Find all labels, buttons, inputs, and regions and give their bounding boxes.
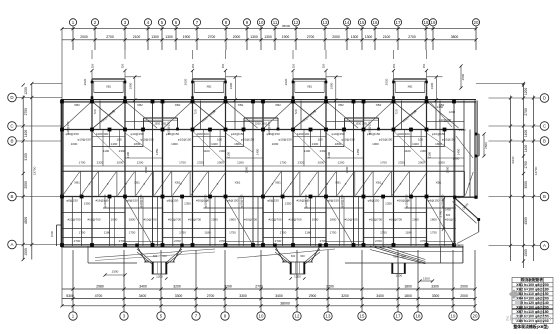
svg-text:350: 350 [292, 63, 296, 68]
svg-text:17: 17 [396, 314, 401, 319]
cell wire [317, 171, 319, 196]
svg-text:φ10@180: φ10@180 [439, 118, 452, 122]
svg-text:1800: 1800 [144, 166, 148, 173]
svg-text:B: B [543, 194, 546, 199]
svg-text:1000: 1000 [71, 142, 78, 146]
svg-text:120: 120 [145, 260, 150, 263]
axis bubble 6 top [172, 19, 179, 26]
svg-text:2000: 2000 [460, 284, 468, 288]
svg-text:1750: 1750 [430, 231, 437, 235]
svg-text:2300: 2300 [219, 149, 226, 153]
svg-text:1500 1201: 1500 1201 [255, 122, 268, 126]
svg-text:350: 350 [91, 63, 95, 68]
svg-text:1000: 1000 [171, 142, 178, 146]
svg-text:A: A [543, 243, 546, 248]
bottom left edge leader [61, 246, 63, 306]
svg-text:1790: 1790 [524, 161, 528, 169]
svg-text:1000: 1000 [50, 230, 54, 237]
svg-text:1200: 1200 [137, 161, 144, 165]
svg-text:C: C [10, 124, 13, 129]
svg-text:13700: 13700 [534, 166, 538, 175]
svg-text:2000: 2000 [233, 35, 241, 39]
svg-text:XB1: XB1 [275, 181, 281, 185]
svg-text:φ8@150: φ8@150 [227, 199, 239, 203]
svg-text:1700: 1700 [79, 161, 86, 165]
axis stub wire bottom [474, 250, 476, 312]
svg-text:350: 350 [422, 63, 426, 68]
svg-text:1350: 1350 [285, 202, 292, 206]
svg-text:13: 13 [326, 314, 331, 319]
svg-text:1200: 1200 [237, 161, 244, 165]
axis bubble 7 top [193, 19, 200, 26]
svg-text:1200: 1200 [294, 275, 301, 279]
svg-text:XB7 h=110 φ8@180: XB7 h=110 φ8@180 [516, 310, 548, 314]
left protrusion [57, 224, 63, 226]
svg-text:φ8@150: φ8@150 [167, 199, 179, 203]
axis bubble 3 top [121, 19, 128, 26]
svg-text:1450: 1450 [437, 105, 444, 109]
axis bubble 17 top [394, 19, 401, 26]
watermark logo square [515, 299, 521, 306]
axis stub wire top [124, 26, 126, 50]
svg-text:XB2 h=100 φ8@180: XB2 h=100 φ8@180 [516, 288, 549, 292]
svg-text:#10@700: #10@700 [168, 218, 181, 222]
svg-text:1100: 1100 [227, 151, 231, 158]
svg-text:φ10@700: φ10@700 [405, 194, 409, 207]
svg-text:1000: 1000 [412, 218, 419, 222]
svg-text:17: 17 [396, 20, 401, 25]
beam wires horizontal [226, 121, 264, 123]
svg-text:1750: 1750 [129, 231, 136, 235]
svg-text:B: B [11, 194, 14, 199]
axis leader wire right [489, 196, 541, 198]
top dimension line upper [62, 28, 476, 30]
svg-text:1450: 1450 [256, 148, 260, 155]
axis stub wire top [94, 26, 96, 50]
stair bay walls [193, 78, 226, 80]
svg-text:1300: 1300 [264, 35, 272, 39]
svg-text:φ10@150: φ10@150 [66, 121, 70, 134]
cell diagonal [118, 172, 135, 195]
corner cleanup mask [456, 198, 478, 244]
axis bubble 14 top [343, 19, 350, 26]
cell diagonal [392, 172, 409, 195]
svg-text:16: 16 [373, 20, 378, 25]
svg-text:XB1: XB1 [74, 181, 80, 185]
svg-text:1300: 1300 [165, 35, 173, 39]
svg-text:φ10@700: φ10@700 [441, 194, 445, 207]
svg-text:1450: 1450 [457, 148, 461, 155]
slab diagonals [63, 102, 91, 128]
axis bubble 20 top [472, 19, 479, 26]
svg-text:2000: 2000 [117, 161, 124, 165]
svg-text:19: 19 [431, 20, 436, 25]
dim 1300 right fan [420, 280, 433, 282]
beam wires horizontal [125, 121, 163, 123]
svg-text:3400: 3400 [139, 284, 147, 288]
svg-text:#10@700: #10@700 [188, 218, 201, 222]
chamfer return [457, 232, 479, 244]
cell diagonal [136, 172, 153, 195]
svg-text:1000: 1000 [111, 218, 118, 222]
axis bubble B left [8, 137, 17, 146]
axis bubble 15 top [358, 19, 365, 26]
svg-text:1800: 1800 [404, 284, 412, 288]
leader diagonal [394, 131, 427, 163]
svg-text:2000: 2000 [418, 161, 425, 165]
bay window fan [273, 244, 321, 280]
svg-text:3150: 3150 [24, 153, 28, 161]
right lower apron line [345, 262, 463, 264]
axis bubble 4 top [144, 19, 151, 26]
svg-text:1800: 1800 [446, 166, 450, 173]
axis bubble 12 bottom [293, 312, 301, 320]
svg-text:1400 100: 1400 100 [196, 132, 209, 136]
svg-text:φ10@150: φ10@150 [442, 138, 456, 142]
cell diagonal [154, 172, 171, 195]
unit module 2 [161, 50, 263, 247]
bottom overall line [62, 305, 475, 307]
svg-text:1900: 1900 [330, 82, 334, 89]
svg-text:600: 600 [446, 213, 451, 217]
svg-text:3300: 3300 [175, 294, 183, 298]
axis bubble 18 top [422, 19, 429, 26]
svg-text:3200: 3200 [173, 284, 181, 288]
svg-text:350: 350 [392, 63, 396, 68]
svg-text:2320: 2320 [197, 161, 204, 165]
axis bubble 5 top [158, 19, 165, 26]
svg-text:2900: 2900 [309, 294, 317, 298]
svg-text:3200: 3200 [224, 284, 232, 288]
fan entry box [290, 262, 292, 274]
svg-text:1500 1201: 1500 1201 [154, 122, 167, 126]
cell wire [79, 171, 81, 196]
axis stub wire bottom [260, 250, 262, 312]
cell diagonal [173, 172, 190, 195]
corner inner wall [454, 197, 456, 245]
svg-text:B: B [11, 139, 14, 144]
corner beam y197 [455, 196, 476, 198]
left apron line [88, 262, 137, 264]
svg-text:φ8@150: φ8@150 [66, 199, 78, 203]
svg-text:1100: 1100 [428, 151, 432, 158]
axis leader wire right [489, 97, 541, 99]
axis bubble 3 bottom [120, 312, 128, 320]
fan leader diagonal 1 [95, 249, 215, 258]
svg-text:1400: 1400 [524, 130, 528, 138]
cell wire [372, 171, 374, 196]
svg-text:3200: 3200 [341, 294, 349, 298]
right end interior wires [463, 101, 465, 198]
svg-text:1350: 1350 [184, 202, 191, 206]
cell diagonal [337, 172, 354, 195]
axis stub wire bottom [195, 250, 197, 312]
svg-text:现浇板配筋表: 现浇板配筋表 [521, 277, 543, 282]
svg-text:φ10@150: φ10@150 [231, 132, 245, 136]
svg-text:A: A [11, 242, 14, 247]
leader diagonal [193, 131, 226, 163]
axis bubble D right [540, 94, 549, 103]
svg-text:#10@700: #10@700 [344, 218, 357, 222]
svg-text:#10@700: #10@700 [67, 218, 80, 222]
svg-text:2300: 2300 [420, 149, 427, 153]
beam wires horizontal [427, 121, 465, 123]
leader diagonal [293, 131, 326, 163]
watermark logo diamond [509, 289, 519, 299]
right bay dim 2500 [483, 134, 485, 156]
left dimension chain outer line [31, 84, 33, 260]
svg-text:φ10@150: φ10@150 [368, 121, 372, 134]
svg-text:2000: 2000 [80, 35, 88, 39]
left small dim 1500 [105, 274, 125, 276]
svg-text:2320: 2320 [298, 161, 305, 165]
cell wire [189, 171, 191, 196]
axis stub wire top [225, 26, 227, 50]
dim 2780 chain [443, 199, 445, 229]
svg-text:XB1: XB1 [335, 181, 341, 185]
building top wall [61, 99, 476, 101]
svg-text:20: 20 [474, 20, 479, 25]
cell wire [390, 171, 392, 196]
svg-text:1100: 1100 [103, 149, 110, 153]
axis bubble 11 top [271, 19, 278, 26]
svg-text:18: 18 [416, 314, 421, 319]
cell diagonal [301, 172, 318, 195]
axis stub wire top [425, 26, 427, 50]
svg-text:1800: 1800 [229, 218, 236, 222]
axis bubble D left [8, 93, 17, 102]
svg-text:1200: 1200 [449, 110, 456, 114]
axis bubble 18 bottom [414, 312, 422, 320]
svg-text:#10@700: #10@700 [244, 218, 257, 222]
axis bubble B right [540, 192, 549, 201]
svg-text:B: B [543, 139, 546, 144]
cell diagonal [264, 172, 281, 195]
axis bubble 13 top [321, 19, 328, 26]
svg-text:1180: 1180 [405, 231, 412, 235]
cell diagonal [81, 172, 98, 195]
stair cross brace [293, 102, 326, 129]
svg-text:φ10@150: φ10@150 [140, 138, 154, 142]
svg-text:2700: 2700 [320, 239, 327, 243]
svg-text:1500: 1500 [524, 249, 528, 257]
cell diagonal [465, 172, 473, 195]
svg-text:1400: 1400 [312, 142, 319, 146]
svg-text:φ10@150: φ10@150 [178, 138, 192, 142]
svg-text:18: 18 [424, 20, 429, 25]
bay window fan [135, 244, 183, 280]
svg-text:1800: 1800 [330, 218, 337, 222]
svg-text:2500: 2500 [484, 142, 488, 149]
svg-text:φ10@700: φ10@700 [103, 194, 107, 207]
svg-text:2320: 2320 [398, 161, 405, 165]
svg-text:2300: 2300 [320, 149, 327, 153]
axis bubble 20 bottom [471, 312, 479, 320]
svg-text:20: 20 [473, 314, 478, 319]
svg-text:1900: 1900 [229, 82, 233, 89]
svg-text:1200: 1200 [395, 273, 402, 277]
axis stub wire top [147, 26, 149, 50]
leader diagonal [92, 131, 125, 163]
axis stub wire bottom [123, 250, 125, 312]
axis stub wire top [72, 26, 74, 50]
svg-text:1300: 1300 [151, 35, 159, 39]
svg-text:2000: 2000 [318, 161, 325, 165]
svg-text:XB1: XB1 [436, 181, 442, 185]
stair bay walls [394, 78, 427, 80]
svg-text:D: D [543, 96, 546, 101]
svg-text:1300: 1300 [365, 35, 373, 39]
axis stub wire top [274, 26, 276, 50]
slab diagonals [365, 102, 393, 128]
svg-text:1400: 1400 [412, 142, 419, 146]
svg-text:XB2: XB2 [338, 103, 344, 107]
svg-text:2000: 2000 [460, 294, 468, 298]
beam wires vertical [162, 101, 164, 247]
svg-text:1000: 1000 [272, 142, 279, 146]
svg-text:1200: 1200 [338, 161, 345, 165]
bottom dimension line row1 [62, 288, 475, 290]
svg-text:XB2: XB2 [275, 103, 281, 107]
axis bubble B left [8, 192, 17, 201]
svg-text:12: 12 [294, 20, 299, 25]
axis leader wire left [16, 244, 62, 246]
unit module 1 [60, 50, 162, 247]
left dimension chain inner line [22, 96, 24, 260]
right side step [475, 133, 479, 135]
svg-text:φ10@150: φ10@150 [267, 121, 271, 134]
svg-text:600: 600 [291, 254, 296, 258]
cell diagonal [63, 172, 80, 195]
svg-text:1100: 1100 [327, 151, 331, 158]
axis bubble 17 bottom [394, 312, 402, 320]
axis stub wire bottom [361, 250, 363, 312]
svg-text:1100: 1100 [304, 149, 311, 153]
svg-text:2700: 2700 [24, 108, 28, 116]
building bottom wall [61, 244, 464, 246]
svg-text:2700: 2700 [420, 239, 427, 243]
beam wires horizontal [326, 121, 364, 123]
cell wire [61, 171, 63, 196]
svg-text:720: 720 [294, 109, 298, 114]
stair bay walls [293, 78, 326, 80]
rebar legend table [512, 277, 553, 329]
svg-text:φ10@150: φ10@150 [379, 138, 393, 142]
svg-text:1900: 1900 [129, 82, 133, 89]
svg-text:2020: 2020 [83, 78, 87, 85]
svg-text:XB1: XB1 [307, 85, 313, 89]
svg-text:1000: 1000 [312, 218, 319, 222]
svg-text:1300: 1300 [250, 35, 258, 39]
svg-text:1200: 1200 [524, 88, 528, 96]
axis bubble 19 top [429, 19, 436, 26]
axis bubble C left [8, 122, 17, 131]
axis leader wire left [16, 140, 62, 142]
svg-text:1800: 1800 [245, 166, 249, 173]
svg-text:1350: 1350 [84, 202, 91, 206]
svg-text:1500 1201: 1500 1201 [355, 122, 368, 126]
svg-text:4500: 4500 [524, 217, 528, 225]
svg-text:XB3 h=110 φ8@150: XB3 h=110 φ8@150 [516, 292, 548, 296]
axis stub wire top [161, 26, 163, 50]
svg-text:1200: 1200 [24, 87, 28, 95]
svg-text:1800: 1800 [404, 294, 412, 298]
axis bubble 12 top [292, 19, 299, 26]
svg-text:2700: 2700 [524, 108, 528, 116]
cell diagonal [282, 172, 299, 195]
svg-text:2780: 2780 [439, 210, 443, 217]
svg-text:2700: 2700 [307, 35, 315, 39]
axis bubble 8 bottom [221, 312, 229, 320]
svg-text:10: 10 [259, 20, 264, 25]
unit module 3 [261, 50, 363, 247]
axis stub wire top [260, 26, 262, 50]
svg-text:1800: 1800 [345, 166, 349, 173]
right fan entry box [391, 263, 393, 274]
svg-text:1180: 1180 [305, 231, 312, 235]
svg-text:2700: 2700 [326, 284, 334, 288]
svg-text:2500: 2500 [461, 73, 465, 80]
svg-text:D: D [10, 95, 13, 100]
cell diagonal [319, 172, 336, 195]
svg-text:1400 100: 1400 100 [96, 132, 109, 136]
unit module 4 [362, 50, 464, 247]
svg-text:1800: 1800 [435, 142, 442, 146]
svg-text:φ10@700: φ10@700 [204, 194, 208, 207]
right dimension chain lines [510, 96, 512, 262]
left edge leader top [61, 29, 63, 101]
cell wire [262, 171, 264, 196]
axis bubble 7 bottom [192, 312, 200, 320]
svg-text:1750: 1750 [280, 231, 287, 235]
svg-text:1400 100: 1400 100 [397, 132, 410, 136]
chamfer oblique wall [455, 198, 479, 220]
svg-text:1800: 1800 [134, 142, 141, 146]
right end room diagonal [456, 136, 473, 158]
slab diagonals [264, 102, 292, 128]
svg-text:2000: 2000 [24, 181, 28, 189]
svg-text:1800: 1800 [335, 142, 342, 146]
axis bubble 2 top [91, 19, 98, 26]
svg-text:1400 100: 1400 100 [297, 132, 310, 136]
svg-text:1800: 1800 [234, 142, 241, 146]
svg-text:2020: 2020 [284, 78, 288, 85]
svg-text:2020: 2020 [184, 78, 188, 85]
beam wires vertical [262, 101, 264, 247]
svg-text:2000: 2000 [217, 161, 224, 165]
axis bubble 10 top [257, 19, 264, 26]
svg-text:1750: 1750 [380, 231, 387, 235]
svg-text:720: 720 [93, 109, 97, 114]
cell wire [98, 171, 100, 196]
beam wires vertical [61, 101, 63, 247]
axis stub wire bottom [452, 250, 454, 312]
svg-text:φ8@150: φ8@150 [368, 199, 380, 203]
svg-text:14: 14 [345, 20, 350, 25]
stair cross brace [193, 102, 226, 129]
axis bubble 19 bottom [449, 312, 457, 320]
svg-text:2700: 2700 [275, 239, 282, 243]
axis stub wire bottom [296, 250, 298, 312]
axis stub wire bottom [224, 250, 226, 312]
svg-text:38000: 38000 [280, 301, 290, 305]
svg-text:1900: 1900 [282, 35, 290, 39]
axis stub wire top [196, 26, 198, 50]
party wall box [343, 118, 380, 130]
svg-text:15: 15 [360, 20, 365, 25]
svg-text:3300: 3300 [431, 284, 439, 288]
svg-text:1000: 1000 [211, 218, 218, 222]
